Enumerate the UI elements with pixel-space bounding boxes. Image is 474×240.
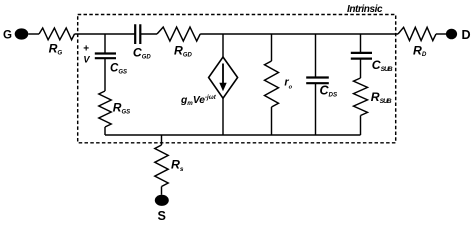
wire R_G through node V to C_GD [75,33,136,35]
svg-text:S: S [158,209,166,221]
svg-text:V: V [83,54,90,64]
svg-text:Intrinsic: Intrinsic [347,4,383,15]
wire bottom rail (source node) [105,134,361,136]
resistor R_GS [99,91,111,127]
terminal S (source node) [155,195,169,206]
resistor R_GD [157,27,200,41]
current source U1 diamond body [209,57,238,98]
wire R_SUB to bottom rail [360,116,362,136]
wire top rail: R_GD to R_D through drain-side junctions [200,33,398,35]
wire R_S to terminal S [161,187,163,195]
svg-text:D: D [462,28,471,42]
current source arrow [222,64,224,84]
terminal G (gate node) [15,28,29,39]
resistor r_o [265,61,279,107]
wire current source to bottom rail [222,98,224,135]
resistor R_S [155,145,168,187]
wire r_o to bottom rail [271,107,273,135]
wire top rail to C_DS [315,34,317,78]
capacitor C_GD [135,24,140,44]
svg-text:G: G [3,29,12,42]
wire G terminal to R_G [28,33,39,35]
wire top rail to current source [222,34,224,57]
resistor R_D [398,27,436,40]
wire R_GS to bottom rail [104,127,106,135]
wire top rail to r_o [271,34,273,61]
wire bottom rail to R_S [161,135,163,145]
capacitor C_SUB [351,53,372,59]
wire R_D to terminal D [436,33,446,35]
wire C_SUB to R_SUB [360,59,362,78]
dashed box: intrinsic region boundary [78,15,396,143]
wire C_DS to bottom rail [315,83,317,135]
wire node V down to C_GS [104,34,106,53]
wire top rail to C_SUB [360,34,362,53]
terminal D (drain node) [446,29,457,40]
resistor R_SUB [354,78,368,116]
svg-text:+: + [83,43,89,54]
capacitor C_GS [95,54,116,59]
capacitor C_DS [306,78,329,84]
wire C_GS to R_GS [104,58,106,91]
wire C_GD to R_GD [140,33,157,35]
resistor R_G [39,28,75,40]
